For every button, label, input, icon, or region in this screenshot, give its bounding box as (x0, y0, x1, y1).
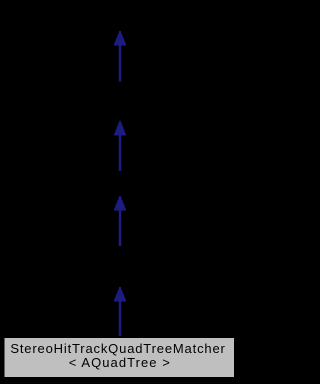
svg-text:< AQuadTree >: < AQuadTree > (69, 355, 170, 370)
svg-text:StereoHitTrackQuadTreeMatcher: StereoHitTrackQuadTreeMatcher (10, 341, 225, 356)
